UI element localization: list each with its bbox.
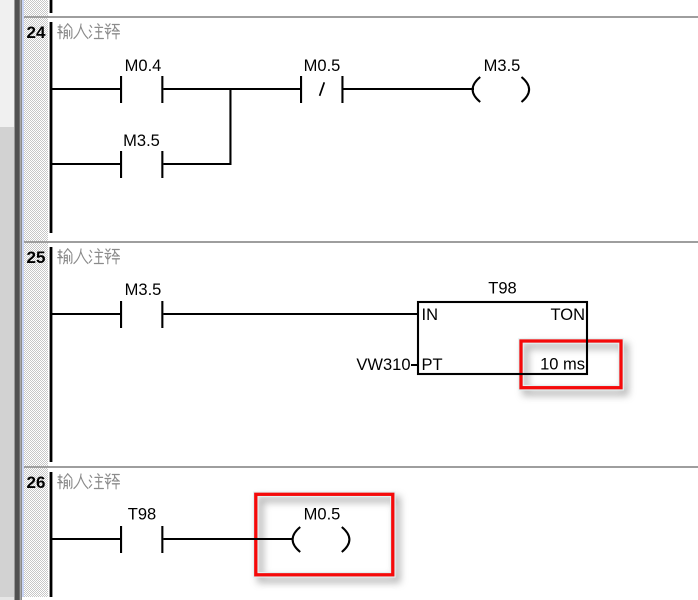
- timer T98 PT pin stub: [411, 364, 418, 366]
- timer box T98 TON: [418, 302, 587, 374]
- contact M3.5 right bar: [161, 151, 163, 178]
- network margin hatch: [24, 0, 48, 597]
- N25 wire rail to contact M3.5: [52, 313, 120, 315]
- operand labels: [123, 57, 585, 524]
- red annotation rectangle network 25 shadow: [526, 346, 626, 393]
- svg-text:M3.5: M3.5: [123, 132, 160, 150]
- contact M0.4 right bar: [161, 76, 163, 103]
- blue selection line: [22, 0, 24, 597]
- left gutter bottom: [0, 127, 14, 597]
- N24 branch vertical wire: [229, 88, 231, 165]
- power rail stub previous network: [50, 0, 53, 13]
- red annotation rectangle network 25: [521, 341, 621, 388]
- red annotation rectangle network 26: [256, 494, 393, 575]
- svg-text:TON: TON: [550, 306, 585, 324]
- N26 wire contact T98 to coil M0.5: [163, 538, 293, 540]
- svg-text:M0.5: M0.5: [304, 506, 341, 524]
- comment 输入注释 network 24: [58, 24, 120, 39]
- svg-text:PT: PT: [422, 356, 443, 374]
- svg-text:26: 26: [27, 473, 46, 492]
- network separator 24: [24, 16, 698, 18]
- network separator 25: [24, 241, 698, 243]
- contact M0.5 (NC) right bar: [341, 76, 343, 103]
- N26 contact T98 right bar: [161, 526, 163, 553]
- svg-text:M0.4: M0.4: [125, 57, 162, 75]
- N26 contact T98 left bar: [120, 526, 122, 553]
- N24 row2 wire rail to contact M3.5: [52, 163, 120, 165]
- N24 wire rail to contact M0.4: [52, 88, 120, 90]
- N25 contact M3.5 left bar: [120, 301, 122, 328]
- left gutter top: [0, 0, 14, 127]
- contact M0.4 left bar: [120, 76, 122, 103]
- N25 wire contact M3.5 to timer box IN: [163, 313, 417, 315]
- contact M3.5 left bar: [120, 151, 122, 178]
- coil M3.5 arcs network 24: [473, 77, 529, 102]
- comment 输入注释 network 26: [58, 474, 120, 489]
- power rail network 26: [50, 472, 53, 597]
- svg-text:25: 25: [27, 248, 46, 267]
- svg-text:M3.5: M3.5: [484, 57, 521, 75]
- svg-text:T98: T98: [488, 280, 516, 298]
- coil M0.5 arcs network 26: [293, 527, 350, 552]
- N24 row2 wire contact M3.5 to branch: [163, 163, 231, 165]
- svg-text:M0.5: M0.5: [304, 57, 341, 75]
- N24 wire contact M0.4 to contact M0.5: [163, 88, 300, 90]
- N25 contact M3.5 right bar: [161, 301, 163, 328]
- N26 wire rail to contact T98: [52, 538, 120, 540]
- N24 wire contact M0.5 to coil M3.5: [344, 88, 475, 90]
- svg-text:M3.5: M3.5: [125, 281, 162, 299]
- power rail network 25: [50, 247, 53, 462]
- red annotation rectangle network 26 halo: [256, 494, 393, 575]
- contact M0.5 (NC) left bar: [300, 76, 302, 103]
- svg-text:24: 24: [27, 23, 46, 42]
- window edge dark band: [14, 0, 15, 600]
- svg-text:IN: IN: [422, 306, 439, 324]
- svg-text:10 ms: 10 ms: [540, 356, 585, 374]
- svg-text:T98: T98: [128, 506, 156, 524]
- network separator 26: [24, 466, 698, 468]
- power rail network 24: [50, 22, 53, 233]
- NC contact slash: [320, 82, 325, 96]
- comment 输入注释 network 25: [58, 249, 120, 264]
- red annotation rectangle network 26 shadow: [260, 499, 397, 580]
- red annotation rectangle network 25 halo: [521, 341, 621, 388]
- svg-text:VW310: VW310: [356, 356, 410, 374]
